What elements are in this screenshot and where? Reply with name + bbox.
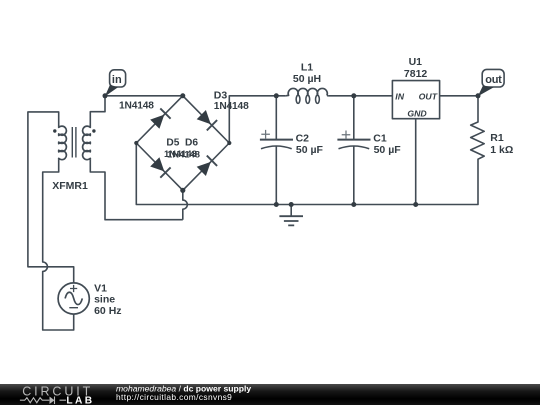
svg-text:60 Hz: 60 Hz <box>94 305 121 317</box>
svg-text:L1: L1 <box>301 61 313 73</box>
svg-text:http://circuitlab.com/csnvns9: http://circuitlab.com/csnvns9 <box>116 392 232 402</box>
svg-text:LAB: LAB <box>66 395 94 405</box>
svg-text:C1: C1 <box>373 132 387 144</box>
svg-text:50 µH: 50 µH <box>293 73 321 85</box>
svg-text:GND: GND <box>407 109 427 119</box>
svg-text:D5: D5 <box>166 138 179 149</box>
svg-text:in: in <box>112 74 122 86</box>
svg-text:IN: IN <box>395 91 404 101</box>
svg-text:50 µF: 50 µF <box>296 144 324 156</box>
svg-text:D6: D6 <box>185 138 198 149</box>
svg-text:1 kΩ: 1 kΩ <box>490 144 513 156</box>
svg-text:50 µF: 50 µF <box>374 144 402 156</box>
svg-text:out: out <box>485 74 502 86</box>
svg-text:1N4148: 1N4148 <box>214 101 249 112</box>
svg-text:R1: R1 <box>490 132 504 144</box>
svg-text:1N4148: 1N4148 <box>167 148 200 159</box>
svg-text:XFMR1: XFMR1 <box>52 180 88 192</box>
svg-text:C2: C2 <box>296 132 310 144</box>
svg-text:OUT: OUT <box>419 91 438 101</box>
svg-text:D3: D3 <box>214 90 228 102</box>
svg-text:sine: sine <box>94 294 115 306</box>
svg-text:U1: U1 <box>409 56 423 68</box>
svg-text:7812: 7812 <box>404 68 428 80</box>
svg-text:1N4148: 1N4148 <box>119 101 154 112</box>
